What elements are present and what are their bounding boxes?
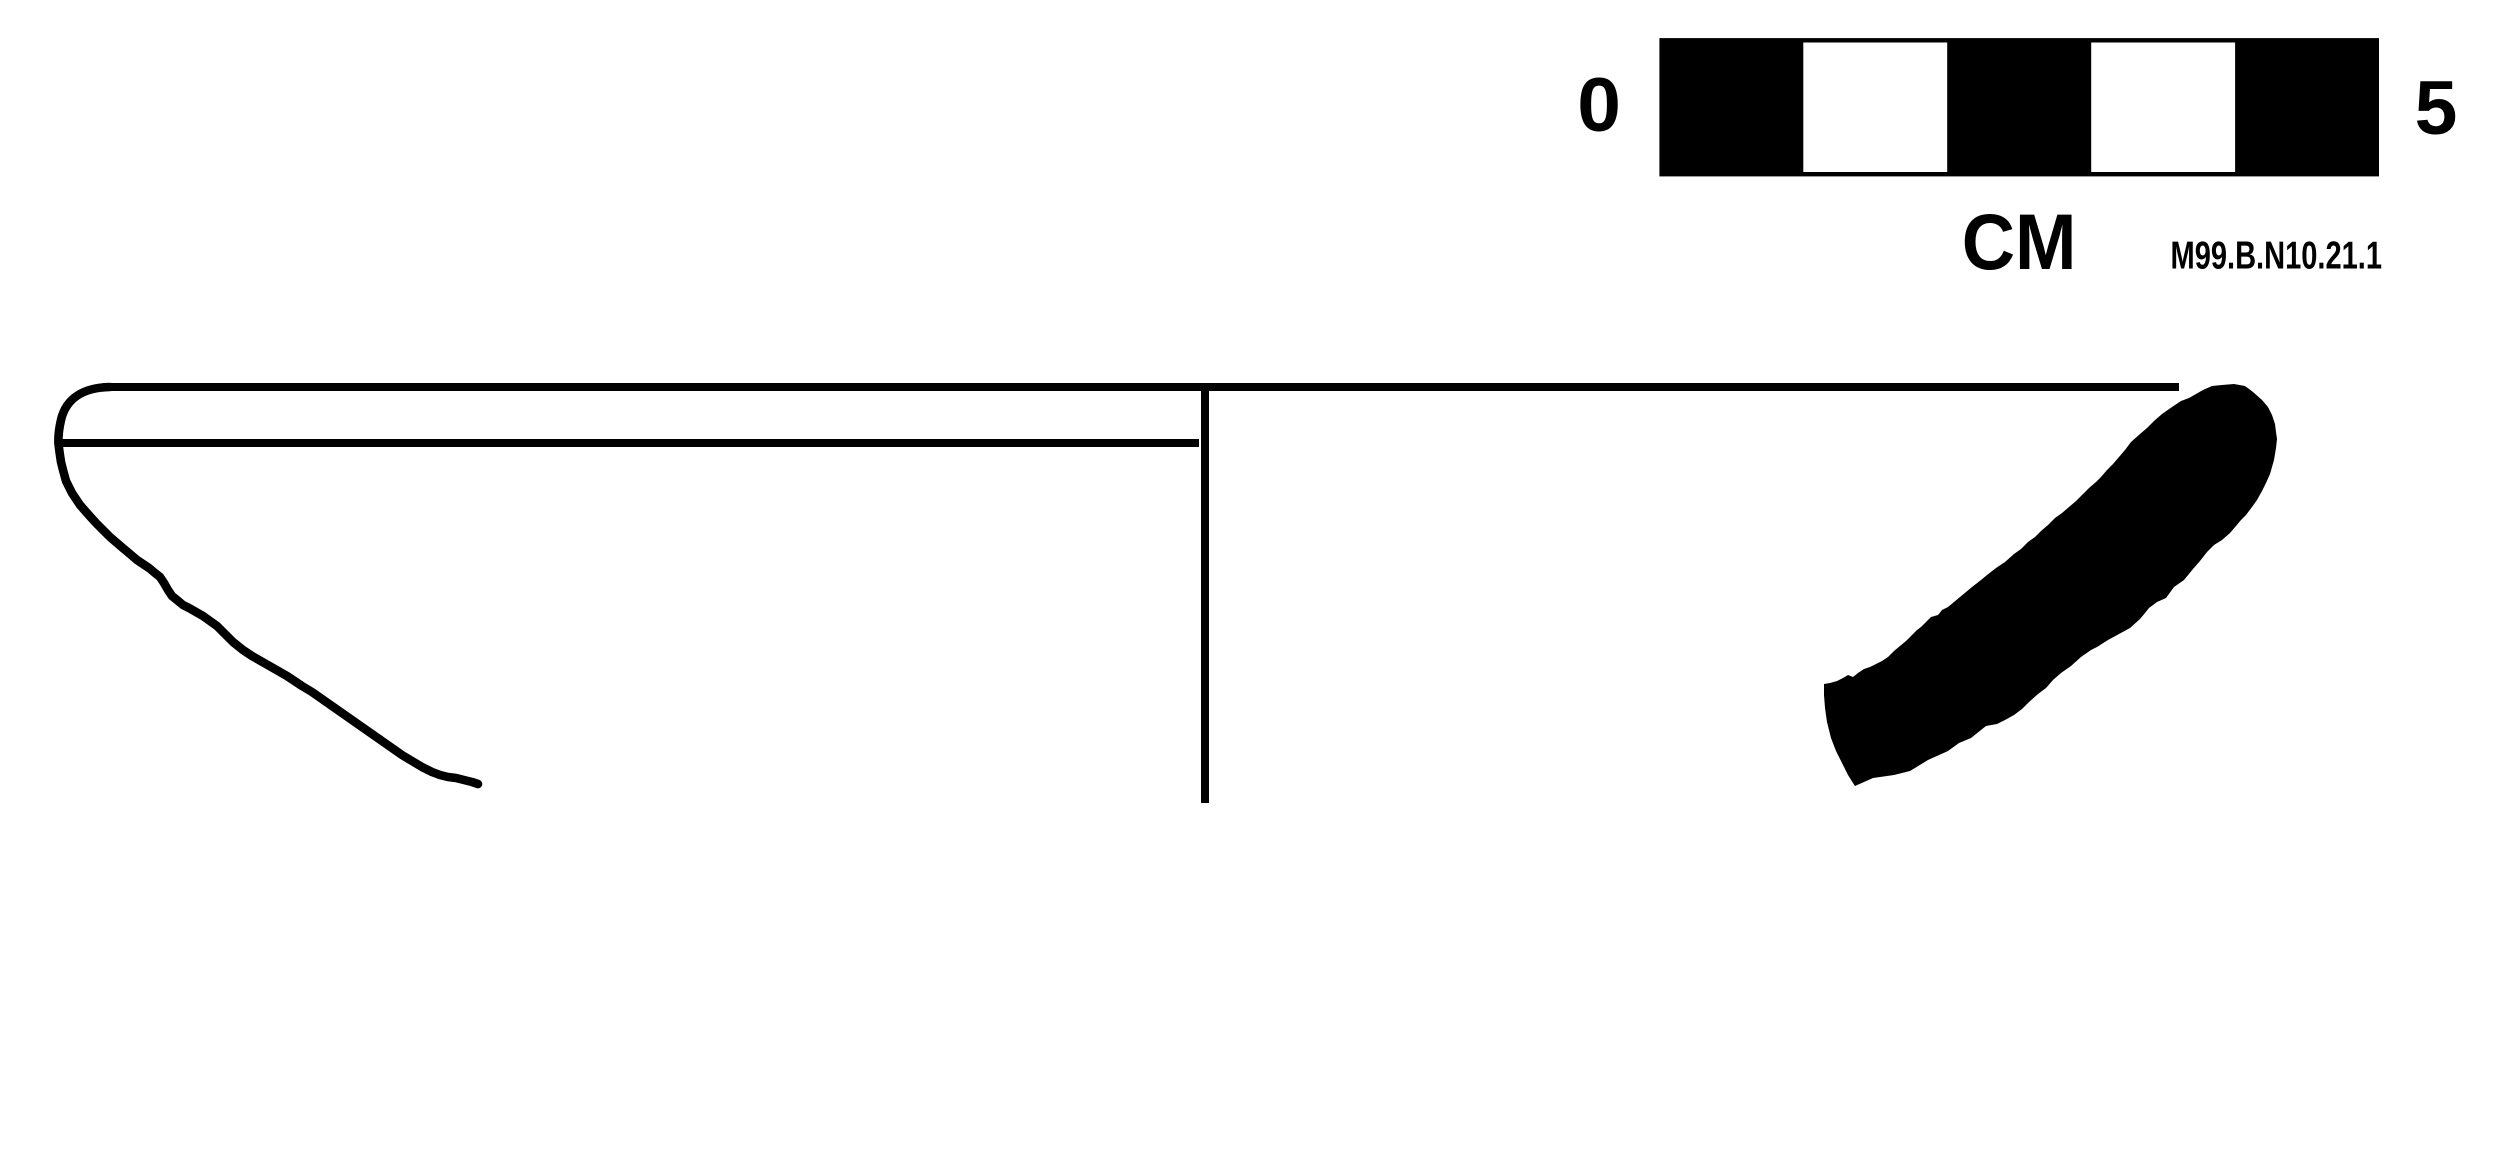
svg-text:CM: CM [1962, 198, 2077, 286]
scale bar white square 2 [1803, 43, 1947, 173]
svg-text:5: 5 [2415, 66, 2458, 151]
rim top line [103, 383, 2179, 391]
scale bar outer black rectangle [1659, 38, 2379, 176]
interior rim line [55, 439, 1199, 447]
vertical center line [1201, 384, 1209, 803]
rim lip curve and exterior profile curve [58, 387, 478, 784]
filled cross-section [1824, 384, 2277, 786]
scale bar white square 4 [2091, 43, 2235, 173]
svg-text:M99.B.N10.21.1: M99.B.N10.21.1 [2171, 235, 2383, 278]
svg-text:0: 0 [1577, 63, 1621, 148]
